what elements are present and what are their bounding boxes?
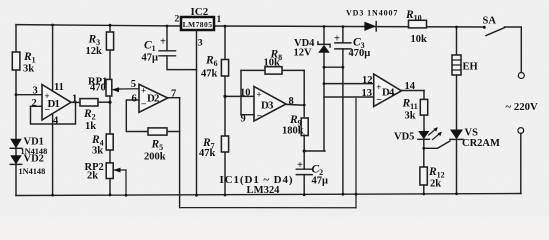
svg-text:9: 9: [241, 114, 246, 125]
svg-text:LM324: LM324: [247, 185, 281, 196]
svg-text:470: 470: [90, 83, 106, 94]
svg-text:47μ: 47μ: [312, 176, 329, 187]
svg-text:SA: SA: [483, 16, 497, 27]
svg-text:~ 220V: ~ 220V: [506, 101, 539, 113]
svg-text:+: +: [297, 160, 303, 171]
svg-text:EH: EH: [463, 62, 478, 73]
svg-text:D4: D4: [382, 87, 395, 99]
svg-text:13: 13: [362, 88, 373, 99]
svg-text:11: 11: [54, 82, 64, 93]
svg-text:12V: 12V: [294, 48, 313, 59]
svg-text:3: 3: [198, 38, 203, 49]
svg-text:D3: D3: [261, 100, 274, 112]
svg-text:7: 7: [171, 89, 176, 100]
svg-text:2k: 2k: [430, 179, 441, 190]
svg-text:200k: 200k: [144, 152, 166, 163]
svg-text:14: 14: [405, 81, 416, 92]
svg-text:3k: 3k: [92, 146, 103, 157]
svg-text:8: 8: [289, 96, 294, 107]
svg-text:4: 4: [53, 116, 59, 127]
svg-text:+: +: [376, 82, 381, 92]
svg-text:+: +: [257, 90, 262, 100]
svg-text:D1: D1: [48, 98, 60, 110]
svg-text:LM7805: LM7805: [183, 20, 213, 29]
svg-text:–: –: [141, 98, 147, 108]
svg-text:D2: D2: [147, 93, 159, 105]
svg-text:180k: 180k: [282, 126, 304, 137]
svg-text:12k: 12k: [86, 46, 103, 57]
svg-text:10k: 10k: [411, 34, 428, 45]
svg-text:+: +: [141, 86, 146, 96]
svg-text:470μ: 470μ: [349, 48, 371, 59]
svg-text:VD5: VD5: [394, 132, 414, 143]
svg-text:47k: 47k: [199, 148, 216, 159]
svg-text:5: 5: [131, 79, 136, 90]
svg-text:1k: 1k: [85, 121, 96, 132]
svg-text:1: 1: [72, 94, 77, 105]
svg-text:IC2: IC2: [191, 6, 209, 18]
svg-text:47μ: 47μ: [142, 53, 159, 64]
svg-text:47k: 47k: [201, 69, 218, 80]
svg-text:CR2AM: CR2AM: [462, 138, 500, 149]
svg-text:+: +: [334, 34, 340, 45]
svg-text:–: –: [376, 94, 382, 104]
svg-text:1: 1: [217, 15, 222, 25]
svg-text:VD3 1N4007: VD3 1N4007: [346, 9, 398, 18]
svg-text:10k: 10k: [264, 58, 281, 69]
svg-text:–: –: [256, 110, 262, 120]
svg-text:10: 10: [240, 88, 251, 99]
svg-text:1N4148: 1N4148: [19, 167, 46, 176]
svg-text:3: 3: [33, 86, 38, 97]
svg-text:VS: VS: [465, 128, 479, 139]
svg-text:2k: 2k: [87, 171, 98, 182]
svg-text:2: 2: [32, 98, 37, 109]
svg-text:3k: 3k: [405, 111, 416, 122]
svg-text:3k: 3k: [23, 64, 34, 75]
svg-text:12: 12: [362, 75, 373, 86]
svg-text:VD1: VD1: [24, 137, 44, 148]
svg-text:VD2: VD2: [24, 154, 44, 165]
svg-text:+: +: [160, 37, 166, 48]
svg-text:6: 6: [132, 94, 137, 105]
svg-text:2: 2: [175, 15, 180, 25]
